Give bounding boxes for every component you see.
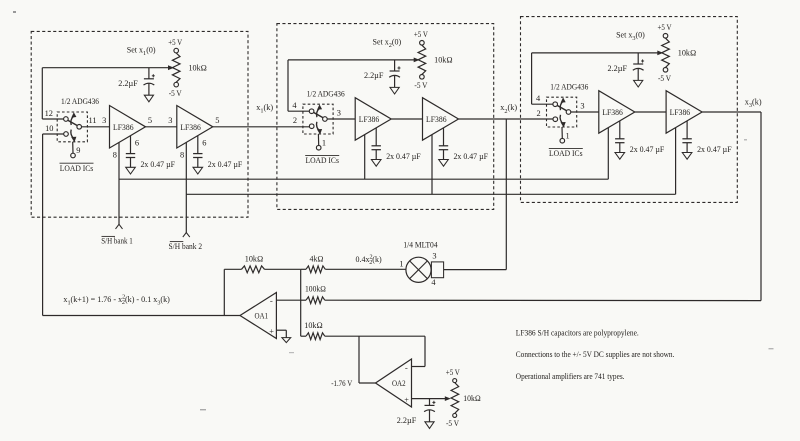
switch pin 1 LOAD ICs control terminal [317,134,319,146]
svg-text:+5 V: +5 V [168,38,182,47]
svg-text:2.2µF: 2.2µF [118,79,138,88]
svg-text:10kΩ: 10kΩ [463,394,481,403]
wire stage3 amp B pin 8 drop to bank2 bus [675,128,677,195]
svg-text:10kΩ: 10kΩ [188,63,207,72]
switch common pin 3 [323,117,328,122]
svg-text:1/2 ADG436: 1/2 ADG436 [61,97,99,106]
switch pin 2 terminal [553,117,558,122]
switch common pin 3 [566,110,571,115]
potentiometer 10 kOhm reference [451,383,459,413]
svg-text:LF386: LF386 [113,123,134,132]
svg-text:LF386 S/H capacitors are polyp: LF386 S/H capacitors are polypropylene. [516,328,639,337]
svg-text:OA1: OA1 [255,312,269,321]
OA1 inverting input wire [276,299,300,301]
arrowhead S/H bank 1 input [116,224,123,229]
svg-text:Operational amplifiers are 741: Operational amplifiers are 741 types. [516,372,625,381]
op-amp OA2 (reference buffer, 741) [376,359,412,407]
hold capacitor 2x 0.47 &#181;F (stage 3 A) [619,121,621,139]
scan speckles (decorative) [13,11,16,13]
svg-text:10kΩ: 10kΩ [245,254,264,263]
switch toggle arrows [317,108,320,117]
S/H stage 2 dashed enclosure [277,24,494,210]
svg-text:-: - [270,296,273,306]
hold capacitor 2x 0.47 &#181;F (stage 3 B) [686,121,688,139]
svg-text:2x 0.47 µF: 2x 0.47 µF [386,152,421,161]
wire OA2 output to loop [358,336,360,383]
multiplier input square (pins 3,4 tied) [431,262,443,278]
svg-text:10kΩ: 10kΩ [678,49,697,58]
svg-text:10kΩ: 10kΩ [434,56,453,65]
svg-text:2: 2 [537,109,541,118]
wire stage3 amp A pin 8 drop to bank1 bus [607,128,609,180]
op-amp LF386 (stage 3 S/H B) [666,91,702,134]
svg-text:6: 6 [202,139,206,148]
wire switch common to LF386 input [327,118,355,120]
svg-text:8: 8 [180,151,184,160]
svg-text:1/2 ADG436: 1/2 ADG436 [307,89,345,98]
svg-text:1/4 MLT04: 1/4 MLT04 [403,241,438,250]
wiper wire with arrow into pot (stage 3) [532,52,660,54]
wire x3(k) return line [325,299,761,301]
hold capacitor 2x 0.47 &#181;F (stage 2 A) [375,128,377,146]
resistor 10 kOhm (to OA2 reference) [301,335,306,337]
-5 V supply terminal (stage 3 pot) [663,68,668,73]
wiper wire with arrow into pot (stage 1) [42,67,170,69]
svg-text:10kΩ: 10kΩ [304,321,323,330]
svg-text:-: - [405,362,408,372]
OA1 non-inverting input ground [276,329,286,331]
svg-text:LF386: LF386 [670,108,691,117]
switch toggle arrows [560,101,563,110]
switch lever [68,120,78,125]
svg-text:LF386: LF386 [426,115,447,124]
svg-text:Connections to the +/- 5V DC s: Connections to the +/- 5V DC supplies ar… [516,350,675,359]
svg-text:2x 0.47 µF: 2x 0.47 µF [454,152,489,161]
svg-text:2.2µF: 2.2µF [608,64,628,73]
wire x3(k): stage3 output to right edge [702,111,761,113]
svg-text:+: + [269,327,274,336]
switch pin 1 LOAD ICs control terminal [561,127,563,139]
svg-text:+5 V: +5 V [658,23,672,32]
S/H stage 1 dashed enclosure [31,31,248,217]
svg-text:LF386: LF386 [359,115,380,124]
switch pin 2 terminal [309,124,314,129]
svg-text:8: 8 [113,151,117,160]
wire x2(k): stage2 output to stage3 switch pin 2 [459,118,554,120]
summing node vertical [300,269,302,336]
bus S/H bank 2 control (pin 8 of second LF386 in each stage) [186,193,675,195]
svg-text:1: 1 [322,138,326,147]
hold capacitor 2x 0.47 &#181;F (stage 2 B) [443,128,445,146]
svg-text:+: + [404,396,409,405]
op-amp LF386 (stage 1 S/H A) [110,106,146,149]
set vertical wire down to switch (stage 3) [531,53,533,104]
wire 4k to multiplier output [325,268,406,270]
S/H stage 3 dashed enclosure [521,17,738,203]
capacitor 2.2 &#181;F (stage 3) [637,53,639,64]
svg-text:LOAD ICs: LOAD ICs [549,149,583,158]
resistor 100 kOhm (x3 input) [306,297,325,304]
op-amp LF386 (stage 2 S/H B) [423,98,459,141]
svg-text:3: 3 [168,116,172,125]
wire OA2 loop top [325,335,425,337]
bus S/H bank 1 control (pin 8 of first LF386 in each stage) [119,178,608,180]
svg-text:1: 1 [399,259,403,268]
set vertical wire down to switch (stage 2) [287,60,289,111]
potentiometer 10 k&#937; Set x3(0) [662,38,670,67]
wire stage2 amp A pin 8 drop to bank1 bus [364,135,366,180]
wire switch common to LF386 input [571,111,599,113]
-5 V supply terminal (stage 1 pot) [174,82,179,87]
svg-text:100kΩ: 100kΩ [305,285,326,294]
svg-text:S/H bank 2: S/H bank 2 [169,242,203,251]
svg-text:1/2 ADG436: 1/2 ADG436 [550,82,588,91]
switch pin 9 LOAD ICs control terminal [72,142,74,154]
svg-text:2x 0.47 µF: 2x 0.47 µF [630,145,665,154]
svg-text:1: 1 [566,131,570,140]
wire stage2 amp B pin 8 drop to bank2 bus [431,135,433,195]
wire x2(k) tap down to multiplier inputs [505,119,507,270]
switch pin 10 terminal [64,132,69,137]
wire S/H bank2 vertical from stage1 amp B pin 8 [185,142,187,232]
wire LF386 A output to LF386 B input (stage 3) [635,111,666,113]
svg-text:-5 V: -5 V [658,74,671,83]
svg-text:LF386: LF386 [180,123,201,132]
op-amp LF386 (stage 1 S/H B) [177,106,213,149]
svg-text:+5 V: +5 V [414,30,428,39]
svg-text:-5 V: -5 V [169,89,182,98]
svg-text:10: 10 [45,124,53,133]
svg-text:+5 V: +5 V [446,368,460,377]
svg-text:12: 12 [45,109,53,118]
svg-text:2.2µF: 2.2µF [364,71,384,80]
svg-text:4kΩ: 4kΩ [310,254,324,263]
svg-text:2x 0.47 µF: 2x 0.47 µF [141,160,176,169]
wire LF386 A output to LF386 B input (stage 1) [146,126,177,128]
potentiometer 10 k&#937; Set x1(0) [172,53,180,82]
svg-text:2x 0.47 µF: 2x 0.47 µF [697,145,732,154]
svg-text:3: 3 [580,101,584,110]
wire switch common to LF386 input [81,126,109,128]
switch lever [557,105,567,110]
op-amp LF386 (stage 3 S/H A) [599,91,635,134]
switch pin 4 terminal [553,102,558,107]
-5 V terminal (reference pot) [453,413,457,417]
svg-text:-5 V: -5 V [446,419,459,428]
svg-text:LOAD ICs: LOAD ICs [60,164,94,173]
hold capacitor 2x 0.47 &#181;F (stage 1 A) [130,136,132,154]
svg-text:-1.76 V: -1.76 V [331,379,352,388]
wiper wire with arrow into pot (stage 2) [288,59,416,61]
svg-text:3: 3 [337,108,341,117]
switch toggle arrows [71,116,74,125]
switch lever [314,112,324,117]
svg-text:9: 9 [76,146,80,155]
svg-text:2: 2 [293,116,297,125]
set vertical wire down to switch (stage 1) [41,68,43,119]
svg-text:-5 V: -5 V [414,81,427,90]
wire LF386 A output to LF386 B input (stage 2) [391,118,422,120]
arrowhead S/H bank 2 input [183,233,190,238]
svg-text:LOAD ICs: LOAD ICs [305,156,339,165]
svg-text:3: 3 [432,251,436,260]
capacitor 2.2 uF (reference filter) [429,399,431,406]
svg-text:OA2: OA2 [392,379,406,388]
hold capacitor 2x 0.47 &#181;F (stage 1 B) [197,136,199,154]
switch pin 4 terminal [309,109,314,114]
OA2 non-inverting input wire to pot wiper [412,398,449,400]
wire S/H bank1 vertical from stage1 amp A pin 8 [118,142,120,224]
potentiometer 10 k&#937; Set x2(0) [418,45,426,74]
capacitor 2.2 &#181;F (stage 1) [148,68,150,79]
switch common pin 11 [77,125,82,130]
svg-text:S/H bank 1: S/H bank 1 [101,237,133,246]
capacitor 2.2 &#181;F (stage 2) [394,60,396,71]
svg-text:2.2µF: 2.2µF [397,416,417,425]
-5 V supply terminal (stage 2 pot) [420,75,425,80]
svg-text:5: 5 [215,116,219,125]
svg-text:3: 3 [102,116,106,125]
svg-text:11: 11 [89,116,97,125]
wire x1(k): stage1 output to stage2 switch pin 2 [213,126,310,128]
switch pin 12 terminal [64,117,69,122]
wire x1(k+1) feedback from OA1 output to stage1 switch pin 10 [43,315,240,317]
svg-text:6: 6 [135,139,139,148]
svg-text:5: 5 [148,116,152,125]
svg-text:2x 0.47 µF: 2x 0.47 µF [208,160,243,169]
resistor 10 kOhm feedback (OA1) [223,269,225,315]
op-amp OA1 (summing amplifier, 741) [240,293,276,339]
resistor 4 kOhm (squared term input) [301,268,306,270]
op-amp LF386 (stage 2 S/H A) [355,98,391,141]
svg-text:LF386: LF386 [602,108,623,117]
